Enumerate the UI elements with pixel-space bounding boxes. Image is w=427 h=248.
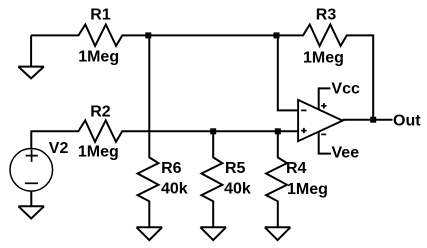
svg-text:1Meg: 1Meg [303, 49, 344, 66]
svg-text:V2: V2 [49, 140, 69, 157]
svg-text:Vee: Vee [332, 144, 360, 161]
svg-text:R3: R3 [316, 6, 337, 23]
svg-text:R4: R4 [286, 160, 307, 177]
svg-text:Out: Out [393, 112, 421, 129]
svg-text:1Meg: 1Meg [287, 181, 328, 198]
svg-text:40k: 40k [161, 180, 188, 197]
svg-text:Vcc: Vcc [331, 80, 360, 97]
svg-text:1Meg: 1Meg [78, 143, 119, 160]
svg-text:40k: 40k [224, 180, 251, 197]
svg-text:R1: R1 [90, 7, 111, 24]
svg-text:R5: R5 [225, 160, 246, 177]
svg-text:R2: R2 [90, 104, 111, 121]
svg-text:1Meg: 1Meg [78, 48, 119, 65]
svg-text:R6: R6 [161, 160, 182, 177]
